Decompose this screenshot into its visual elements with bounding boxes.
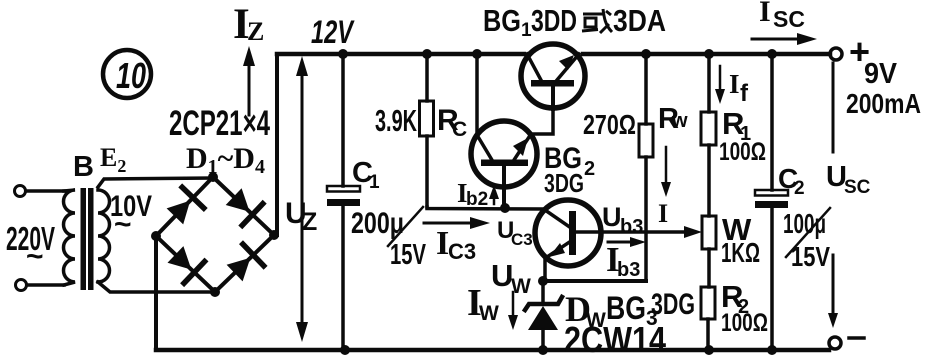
svg-text:270Ω: 270Ω (583, 109, 636, 140)
svg-text:1: 1 (369, 172, 380, 193)
svg-text:200μ: 200μ (351, 207, 404, 240)
svg-text:b3: b3 (620, 216, 643, 238)
svg-text:3DG: 3DG (651, 288, 695, 321)
svg-text:2: 2 (794, 178, 805, 199)
svg-text:f: f (740, 80, 749, 107)
svg-text:15V: 15V (791, 241, 830, 272)
svg-text:12V: 12V (311, 14, 355, 50)
svg-text:100Ω: 100Ω (719, 138, 766, 166)
svg-text:100Ω: 100Ω (721, 309, 768, 337)
svg-text:3DA: 3DA (613, 3, 666, 38)
svg-text:I: I (658, 199, 668, 228)
svg-text:SC: SC (773, 6, 805, 32)
svg-text:~: ~ (114, 208, 132, 241)
svg-text:2CP21×4: 2CP21×4 (169, 104, 270, 143)
svg-text:C3: C3 (448, 239, 476, 264)
svg-text:SC: SC (844, 177, 871, 198)
svg-text:9V: 9V (864, 58, 898, 90)
svg-text:D1~D4: D1~D4 (186, 142, 265, 178)
svg-text:b2: b2 (466, 189, 488, 210)
svg-text:C: C (452, 118, 467, 141)
svg-text:~: ~ (26, 240, 44, 273)
svg-text:I: I (729, 69, 740, 99)
svg-text:3DG: 3DG (544, 168, 584, 198)
svg-text:b3: b3 (617, 259, 640, 281)
svg-text:W: W (479, 302, 499, 325)
svg-text:200mA: 200mA (846, 88, 921, 119)
svg-text:10: 10 (116, 55, 146, 96)
svg-text:Z: Z (302, 208, 317, 236)
svg-text:W: W (511, 275, 531, 298)
svg-text:2: 2 (584, 158, 595, 180)
svg-text:3.9K: 3.9K (375, 103, 417, 138)
svg-text:E2: E2 (100, 143, 126, 176)
svg-text:1KΩ: 1KΩ (721, 237, 760, 268)
svg-text:BG: BG (483, 3, 521, 38)
svg-text:B: B (73, 151, 94, 183)
svg-text:I: I (759, 0, 771, 28)
svg-text:w: w (671, 110, 688, 132)
svg-text:3DD: 3DD (531, 3, 577, 38)
svg-text:C3: C3 (511, 230, 533, 249)
svg-text:100μ: 100μ (783, 208, 826, 239)
svg-text:15V: 15V (390, 239, 426, 271)
svg-text:U: U (602, 202, 622, 232)
svg-text:Z: Z (247, 17, 264, 46)
svg-text:2CW14: 2CW14 (564, 319, 666, 360)
